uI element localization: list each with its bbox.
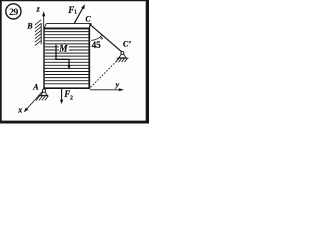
y axis [90,88,124,91]
svg-text:y: y [115,80,120,89]
problem number badge 29 [6,4,21,19]
frame border [0,0,149,124]
plate front face edges [43,28,90,89]
svg-text:45: 45 [92,40,101,50]
wall line at B [40,23,42,44]
label F1 [67,5,77,16]
background [0,0,150,127]
support at C' [116,51,129,62]
svg-text:Cʼ: Cʼ [123,39,131,48]
x axis [24,92,43,113]
svg-text:2: 2 [70,96,73,102]
plate hatch lines [45,32,89,84]
svg-text:A: A [32,83,39,92]
svg-text:B: B [26,22,33,31]
label F2 [63,89,73,101]
svg-text:29: 29 [9,7,18,18]
back edge right connector [89,24,90,28]
svg-text:M: M [58,45,68,55]
z axis [42,11,45,27]
plate top back edge [46,23,90,25]
label M knockout [59,45,69,52]
bar C to C' [91,25,123,52]
back edge left connector [44,24,46,29]
wall hatching at B [35,20,41,46]
corner dot C [89,23,91,25]
dashed construction line [91,58,120,87]
moment M symbol [56,45,71,70]
force F2 arrow [60,89,63,105]
svg-text:1: 1 [74,10,77,16]
support at A [36,89,48,100]
force F1 arrow [74,4,85,23]
angle arc 45 [91,35,102,41]
svg-text:C: C [85,15,91,24]
label 45 deg [92,38,103,51]
svg-text:x: x [17,106,22,115]
